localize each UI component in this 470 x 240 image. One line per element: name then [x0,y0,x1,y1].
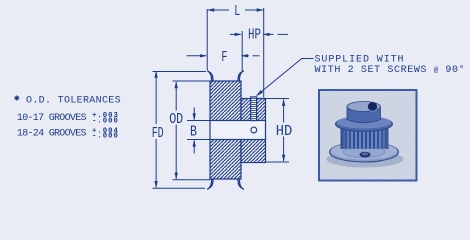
svg-text:O.D. TOLERANCES: O.D. TOLERANCES [26,95,121,106]
svg-text:10-17 GROOVES: 10-17 GROOVES [17,113,87,124]
svg-text:B: B [190,124,197,141]
svg-text:-.000: -.000 [92,133,119,141]
svg-text:F: F [221,49,227,66]
svg-text:18-24 GROOVES: 18-24 GROOVES [17,129,87,140]
svg-text:WITH 2 SET SCREWS @ 90°: WITH 2 SET SCREWS @ 90° [315,64,466,76]
svg-text:HP: HP [248,27,261,44]
svg-text:FD: FD [152,125,164,142]
svg-text:SUPPLIED WITH: SUPPLIED WITH [315,54,405,65]
svg-text:OD: OD [169,111,183,128]
svg-text:-.000: -.000 [92,117,119,125]
svg-text:HD: HD [276,123,293,140]
svg-text:L: L [234,3,240,20]
